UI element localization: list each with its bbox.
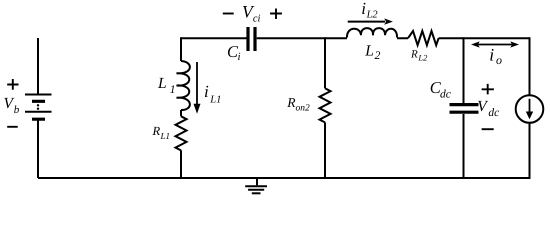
svg-text:1: 1 xyxy=(170,84,176,96)
svg-text:L1: L1 xyxy=(209,94,221,105)
svg-text:i: i xyxy=(238,51,241,63)
svg-text:L: L xyxy=(157,75,167,92)
svg-text:L2: L2 xyxy=(417,53,428,63)
svg-text:L: L xyxy=(364,42,374,59)
svg-text:i: i xyxy=(361,0,366,18)
svg-text:dc: dc xyxy=(440,89,451,101)
svg-text:on2: on2 xyxy=(296,103,311,113)
svg-text:i: i xyxy=(489,45,494,65)
svg-text:2: 2 xyxy=(375,50,381,62)
svg-text:o: o xyxy=(496,53,502,67)
svg-text:L1: L1 xyxy=(160,131,171,141)
svg-text:dc: dc xyxy=(488,107,499,119)
svg-text:R: R xyxy=(152,124,161,138)
svg-text:b: b xyxy=(14,104,20,116)
svg-text:ci: ci xyxy=(253,14,261,25)
svg-text:L2: L2 xyxy=(366,10,379,21)
svg-text:V: V xyxy=(477,98,488,115)
svg-text:i: i xyxy=(204,82,209,101)
svg-text:R: R xyxy=(410,48,418,60)
